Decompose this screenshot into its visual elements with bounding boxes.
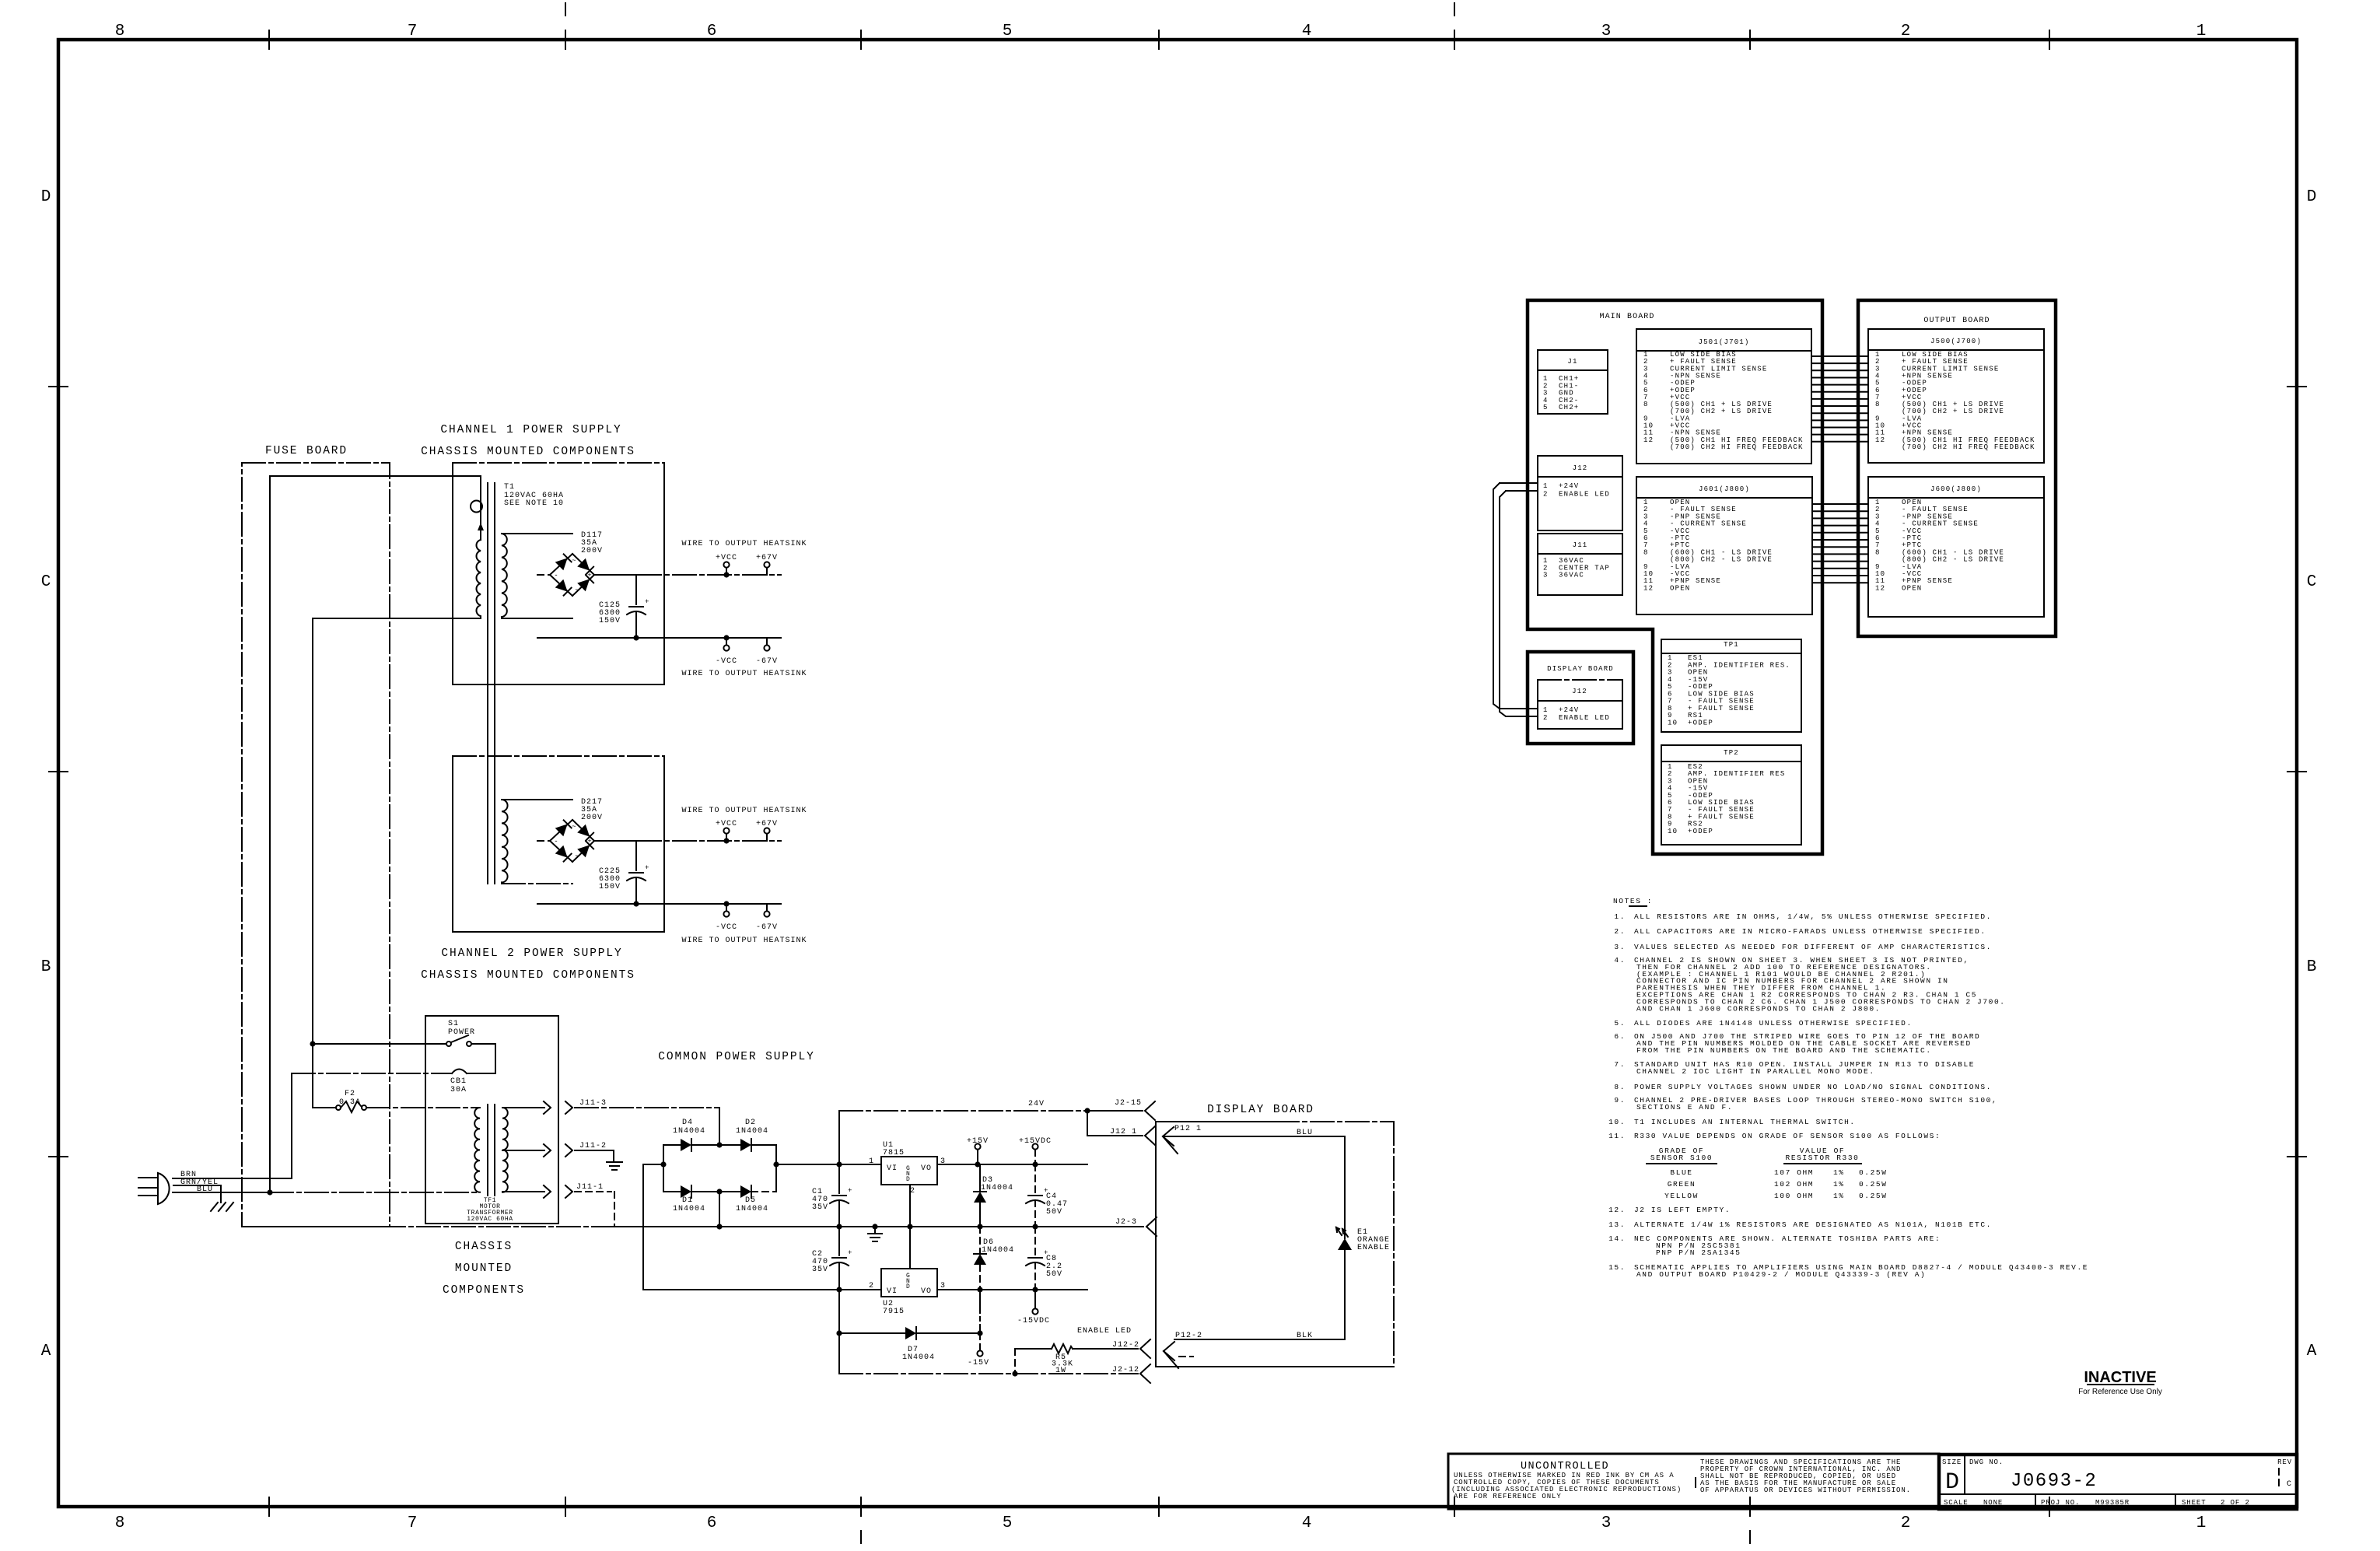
title block uncontrolled box bbox=[1448, 1454, 1939, 1509]
junction -VCC ch2 bbox=[723, 901, 729, 906]
svg-text:100 OHM: 100 OHM bbox=[1774, 1192, 1814, 1200]
svg-text:OPEN: OPEN bbox=[1902, 584, 1922, 592]
svg-text:102 OHM: 102 OHM bbox=[1774, 1180, 1814, 1189]
svg-text:10: 10 bbox=[1668, 828, 1678, 835]
wire J2-12 row bbox=[839, 1373, 1138, 1374]
svg-text:ENABLE LED: ENABLE LED bbox=[1559, 714, 1610, 722]
svg-text:C: C bbox=[2307, 573, 2317, 591]
wire F2 to TF1 primary bbox=[366, 1107, 480, 1108]
svg-text:ALL RESISTORS ARE IN OHMS, 1/4: ALL RESISTORS ARE IN OHMS, 1/4W, 5% UNLE… bbox=[1634, 912, 1992, 921]
svg-text:+VCC: +VCC bbox=[716, 554, 737, 562]
svg-text:+: + bbox=[848, 1249, 852, 1257]
svg-text:J12: J12 bbox=[1573, 464, 1588, 472]
svg-text:VI: VI bbox=[887, 1164, 898, 1173]
ribbon wires J501 to J500 bbox=[1811, 356, 1868, 442]
T1 secondary winding ch1 bbox=[502, 534, 507, 617]
note 14 part numbers bbox=[1656, 1241, 1741, 1257]
svg-text:4.: 4. bbox=[1614, 956, 1626, 965]
wire J11-3 riser to D4/D2 row bbox=[719, 1108, 720, 1145]
svg-text:FUSE BOARD: FUSE BOARD bbox=[265, 445, 348, 457]
svg-text:8: 8 bbox=[115, 23, 125, 40]
wire TF1 secondary tap J11-2 center bbox=[502, 1144, 614, 1162]
earth ground symbol center tap bbox=[607, 1162, 622, 1170]
svg-text:1N4004: 1N4004 bbox=[982, 1246, 1014, 1255]
junction D1-D5 bbox=[716, 1189, 722, 1194]
bridge ac stub left ch2 bbox=[537, 840, 550, 842]
svg-text:TP1: TP1 bbox=[1724, 641, 1739, 649]
note 1 bbox=[1614, 912, 1992, 921]
svg-text:200V: 200V bbox=[581, 814, 603, 822]
note 14 bbox=[1608, 1234, 1941, 1243]
svg-text:5: 5 bbox=[1543, 404, 1549, 411]
test point table TP1 bbox=[1661, 639, 1801, 732]
wire J11-1 riser to D1/D5 bbox=[719, 1192, 720, 1227]
wire T1 primary bottom to x=402 y=795 bbox=[313, 618, 481, 1108]
svg-text:1N4004: 1N4004 bbox=[736, 1127, 768, 1136]
svg-text:CHANNEL 2 POWER SUPPLY: CHANNEL 2 POWER SUPPLY bbox=[441, 947, 622, 960]
svg-text:TP2: TP2 bbox=[1724, 749, 1739, 757]
svg-text:30A: 30A bbox=[450, 1086, 467, 1094]
svg-text:9.: 9. bbox=[1614, 1096, 1626, 1105]
wire to J12-1 bbox=[1087, 1111, 1143, 1136]
svg-text:10: 10 bbox=[1668, 719, 1678, 726]
connector table J1 bbox=[1538, 350, 1608, 414]
svg-text:J2-15: J2-15 bbox=[1115, 1099, 1142, 1108]
svg-text:J2-12: J2-12 bbox=[1112, 1366, 1139, 1374]
svg-text:J12: J12 bbox=[1572, 688, 1587, 695]
svg-text:VO: VO bbox=[921, 1164, 932, 1173]
terminal +VCC ch2 bbox=[716, 820, 737, 841]
svg-text:D1: D1 bbox=[682, 1196, 693, 1205]
title block property text bbox=[1700, 1458, 1911, 1494]
svg-text:BLU: BLU bbox=[197, 1185, 213, 1194]
svg-text:4: 4 bbox=[1302, 1514, 1312, 1532]
svg-text:BLUE: BLUE bbox=[1670, 1168, 1692, 1177]
junction 24V J12-1 drop bbox=[1084, 1108, 1090, 1113]
junction R5 J2-12 bbox=[1012, 1371, 1017, 1376]
note 9 bbox=[1614, 1096, 1997, 1112]
svg-text:P12-2: P12-2 bbox=[1175, 1332, 1202, 1340]
regulator U1 7815 bbox=[869, 1141, 946, 1196]
display board outline left bbox=[1156, 1122, 1394, 1367]
svg-text:D: D bbox=[906, 1176, 910, 1183]
svg-text:35V: 35V bbox=[812, 1203, 828, 1212]
bridge rectifier D217 bbox=[550, 820, 594, 862]
terminal -67V ch1 bbox=[756, 638, 778, 666]
wire GRN/YEL from plug bbox=[173, 1185, 221, 1203]
diode D1 bbox=[663, 1185, 719, 1213]
connector table J12 display bbox=[1538, 680, 1622, 729]
svg-text:-: - bbox=[554, 572, 558, 579]
connector table J500(J700) bbox=[1868, 329, 2044, 463]
note 4 bbox=[1614, 956, 2005, 1013]
svg-text:1N4004: 1N4004 bbox=[902, 1353, 935, 1362]
junction gnd U1 pin2 bbox=[907, 1224, 912, 1229]
svg-text:WIRE TO OUTPUT HEATSINK: WIRE TO OUTPUT HEATSINK bbox=[681, 807, 807, 815]
svg-text:DISPLAY BOARD: DISPLAY BOARD bbox=[1547, 665, 1614, 673]
svg-text:8: 8 bbox=[115, 1514, 125, 1532]
svg-text:3.: 3. bbox=[1614, 943, 1626, 951]
svg-text:D: D bbox=[2307, 188, 2317, 206]
svg-text:J2-3: J2-3 bbox=[1115, 1218, 1137, 1227]
svg-text:7915: 7915 bbox=[883, 1308, 905, 1316]
note 11 bbox=[1608, 1132, 1941, 1140]
capacitor C1 bbox=[812, 1164, 852, 1227]
svg-text:J501(J701): J501(J701) bbox=[1698, 338, 1749, 346]
svg-text:35V: 35V bbox=[812, 1266, 828, 1274]
svg-text:12: 12 bbox=[1643, 584, 1654, 592]
junction +15V stub bbox=[975, 1161, 980, 1167]
svg-text:0.25W: 0.25W bbox=[1859, 1192, 1888, 1200]
svg-text:+: + bbox=[848, 1187, 852, 1195]
svg-text:+: + bbox=[587, 572, 591, 579]
svg-text:C: C bbox=[2287, 1480, 2292, 1489]
TF1 secondary winding bbox=[502, 1108, 508, 1192]
C125 label bbox=[599, 601, 621, 625]
wire D4/D1 anodes join bbox=[643, 1145, 663, 1290]
wire +unreg row to U1 bbox=[776, 1164, 881, 1165]
wire P12-1 BLU to LED bbox=[1163, 1136, 1345, 1238]
svg-text:BLK: BLK bbox=[1297, 1332, 1313, 1340]
chassis box TF1 common bbox=[425, 1016, 558, 1224]
svg-text:+: + bbox=[587, 838, 591, 846]
svg-text:24V: 24V bbox=[1028, 1100, 1045, 1108]
note 11 sensor table bbox=[1647, 1147, 1888, 1200]
svg-text:2: 2 bbox=[1543, 714, 1549, 722]
terminal +67V ch2 bbox=[756, 820, 778, 841]
svg-text:1N4004: 1N4004 bbox=[736, 1205, 768, 1213]
svg-text:150V: 150V bbox=[599, 883, 621, 891]
main board outline bbox=[1528, 300, 1822, 854]
svg-text:+: + bbox=[645, 598, 649, 606]
svg-text:7: 7 bbox=[408, 1514, 418, 1532]
diode D6 bbox=[974, 1227, 1014, 1290]
svg-text:1: 1 bbox=[1543, 482, 1549, 490]
TF1 label bbox=[467, 1197, 513, 1223]
svg-text:NONE: NONE bbox=[1983, 1499, 2003, 1507]
svg-text:1%: 1% bbox=[1833, 1168, 1845, 1177]
svg-text:SHEET: SHEET bbox=[2182, 1499, 2207, 1507]
svg-text:14.: 14. bbox=[1608, 1234, 1626, 1243]
D217 label bbox=[581, 798, 603, 822]
svg-text:12: 12 bbox=[1643, 436, 1654, 444]
svg-text:J11-2: J11-2 bbox=[579, 1142, 607, 1150]
T1 primary winding bbox=[476, 540, 481, 618]
stamp INACTIVE bbox=[2078, 1369, 2162, 1396]
svg-text:1: 1 bbox=[1543, 706, 1549, 714]
svg-text:D: D bbox=[41, 188, 51, 206]
svg-text:J1: J1 bbox=[1567, 358, 1577, 366]
note 8 bbox=[1614, 1083, 1992, 1091]
svg-text:6.: 6. bbox=[1614, 1032, 1626, 1041]
svg-text:1N4004: 1N4004 bbox=[673, 1127, 705, 1136]
svg-text:11.: 11. bbox=[1608, 1132, 1626, 1140]
svg-text:+ODEP: +ODEP bbox=[1688, 719, 1713, 726]
svg-text:3: 3 bbox=[1601, 23, 1612, 40]
ac power plug P1 bbox=[138, 1173, 170, 1204]
TF1 core lines bbox=[488, 1105, 495, 1196]
svg-text:-67V: -67V bbox=[756, 923, 778, 932]
offpage arrow J2-3 bbox=[1115, 1217, 1157, 1236]
svg-text:NOTES :: NOTES : bbox=[1613, 897, 1653, 905]
svg-text:-VCC: -VCC bbox=[716, 657, 737, 666]
junction gnd C4C8 bbox=[1032, 1224, 1038, 1229]
junction gnd D3D6 bbox=[977, 1224, 982, 1229]
junction D7 right bbox=[977, 1330, 982, 1336]
T1 label bbox=[504, 483, 564, 508]
svg-text:B: B bbox=[41, 958, 51, 976]
svg-text:P12 1: P12 1 bbox=[1174, 1125, 1202, 1133]
wire BRN dash-dot to CB1 bbox=[292, 1073, 452, 1074]
regulator U2 7915 bbox=[869, 1269, 946, 1316]
svg-text:VO: VO bbox=[921, 1287, 932, 1296]
chassis box channel 2 bbox=[453, 756, 664, 932]
svg-text:8: 8 bbox=[1875, 548, 1881, 556]
wire S1 feed from x=402 y=1342 bbox=[313, 1043, 446, 1045]
fuse board dashed outline bbox=[242, 463, 390, 1227]
wire bridge + output ch2 bbox=[594, 840, 781, 842]
svg-text:+24V: +24V bbox=[1559, 482, 1579, 490]
junction cap bottom ch2 bbox=[633, 901, 639, 906]
svg-text:+ODEP: +ODEP bbox=[1688, 828, 1713, 835]
junction D6 bottom bbox=[977, 1287, 982, 1292]
svg-text:PROJ NO.: PROJ NO. bbox=[2041, 1499, 2080, 1507]
svg-text:D: D bbox=[1945, 1469, 1959, 1496]
svg-text:0.25W: 0.25W bbox=[1859, 1168, 1888, 1177]
svg-text:BLU: BLU bbox=[1297, 1129, 1313, 1137]
svg-text:15.: 15. bbox=[1608, 1263, 1626, 1272]
svg-text:7.: 7. bbox=[1614, 1060, 1626, 1069]
wire BRN from plug bbox=[173, 1073, 292, 1178]
svg-text:VALUES SELECTED AS NEEDED FOR: VALUES SELECTED AS NEEDED FOR DIFFERENT … bbox=[1634, 943, 1992, 951]
svg-text:VI: VI bbox=[887, 1287, 898, 1296]
note 12 bbox=[1608, 1206, 1731, 1214]
capacitor C8 bbox=[1026, 1227, 1062, 1290]
svg-text:ALL CAPACITORS ARE IN MICRO-FA: ALL CAPACITORS ARE IN MICRO-FARADS UNLES… bbox=[1634, 927, 1986, 936]
svg-text:+67V: +67V bbox=[756, 820, 778, 828]
svg-text:13.: 13. bbox=[1608, 1220, 1626, 1229]
svg-text:MOUNTED: MOUNTED bbox=[455, 1262, 513, 1275]
svg-text:2.: 2. bbox=[1614, 927, 1626, 936]
svg-text:(700) CH2 HI FREQ FEEDBACK: (700) CH2 HI FREQ FEEDBACK bbox=[1902, 443, 2035, 451]
wire U1 GND to U2 GND bbox=[909, 1185, 911, 1269]
wires T1 secondary to bridge ch2 bbox=[502, 800, 572, 884]
svg-text:POWER SUPPLY VOLTAGES SHOWN UN: POWER SUPPLY VOLTAGES SHOWN UNDER NO LOA… bbox=[1634, 1083, 1992, 1091]
svg-text:2 OF 2: 2 OF 2 bbox=[2221, 1499, 2250, 1507]
svg-text:0.3A: 0.3A bbox=[339, 1098, 361, 1107]
note 10 bbox=[1608, 1118, 1856, 1126]
svg-text:1N4004: 1N4004 bbox=[981, 1184, 1013, 1192]
junction C8 bottom -15VDC bbox=[1032, 1287, 1038, 1292]
LED E1 ORANGE ENABLE bbox=[1336, 1227, 1390, 1339]
svg-text:8: 8 bbox=[1643, 401, 1649, 408]
arrow P12-1 bbox=[1163, 1125, 1202, 1154]
svg-text:1: 1 bbox=[2196, 23, 2207, 40]
junction gnd C1C2 bbox=[836, 1224, 842, 1229]
svg-text:50V: 50V bbox=[1046, 1270, 1062, 1279]
notes heading bbox=[1613, 897, 1653, 906]
svg-text:D2: D2 bbox=[745, 1119, 756, 1127]
note 7 bbox=[1614, 1060, 1975, 1076]
svg-text:~: ~ bbox=[575, 586, 579, 594]
svg-text:+24V: +24V bbox=[1559, 706, 1579, 714]
connector table J601(J800) bbox=[1636, 477, 1812, 614]
note 6 bbox=[1614, 1032, 1980, 1055]
svg-text:7815: 7815 bbox=[883, 1149, 905, 1157]
note 13 bbox=[1608, 1220, 1992, 1229]
bridge rectifier D117 bbox=[550, 554, 594, 596]
svg-text:J601(J800): J601(J800) bbox=[1699, 485, 1750, 493]
svg-text:200V: 200V bbox=[581, 547, 603, 555]
svg-text:T1 INCLUDES AN INTERNAL THERMA: T1 INCLUDES AN INTERNAL THERMAL SWITCH. bbox=[1634, 1118, 1856, 1126]
svg-text:ENABLE LED: ENABLE LED bbox=[1559, 490, 1610, 498]
switch S1 POWER bbox=[446, 1020, 475, 1046]
offpage arrow J2-15 bbox=[1115, 1099, 1155, 1120]
zone ticks top/bottom bbox=[269, 3, 2049, 1543]
ribbon wires J601 to J600 bbox=[1812, 504, 1868, 583]
zone numbers bottom bbox=[115, 1514, 2207, 1532]
title block drawing number area bbox=[1939, 1455, 2297, 1509]
connector table J12 main bbox=[1538, 456, 1622, 530]
svg-text:M99385R: M99385R bbox=[2095, 1499, 2130, 1507]
transformer TF1 primary winding bbox=[474, 1108, 480, 1192]
wire U1 output row bbox=[937, 1164, 1087, 1165]
svg-text:REV: REV bbox=[2277, 1458, 2292, 1466]
diode D2 bbox=[719, 1119, 776, 1151]
svg-text:UNCONTROLLED: UNCONTROLLED bbox=[1521, 1461, 1609, 1472]
svg-text:J0693-2: J0693-2 bbox=[2011, 1471, 2097, 1492]
svg-text:B: B bbox=[2307, 958, 2317, 976]
svg-text:J11-3: J11-3 bbox=[579, 1099, 607, 1108]
svg-text:6: 6 bbox=[707, 23, 717, 40]
diode D7 bbox=[839, 1327, 980, 1362]
svg-text:2: 2 bbox=[1901, 23, 1911, 40]
capacitor C125 bbox=[627, 575, 649, 638]
svg-text:J600(J800): J600(J800) bbox=[1930, 485, 1982, 493]
svg-text:R330 VALUE DEPENDS ON GRADE OF: R330 VALUE DEPENDS ON GRADE OF SENSOR S1… bbox=[1634, 1132, 1941, 1140]
junction D4-D2 bbox=[716, 1142, 722, 1147]
svg-text:J12 1: J12 1 bbox=[1110, 1128, 1137, 1136]
junction cap bottom ch1 bbox=[633, 635, 639, 640]
svg-text:ALTERNATE 1/4W 1% RESISTORS AR: ALTERNATE 1/4W 1% RESISTORS ARE DESIGNAT… bbox=[1634, 1220, 1992, 1229]
wire T1 primary top feed y=612 bbox=[270, 476, 481, 498]
junction BLU fuse board bbox=[267, 1189, 272, 1195]
svg-text:J11: J11 bbox=[1573, 541, 1588, 549]
terminal +67V ch1 bbox=[756, 554, 778, 575]
junction +VCC ch1 bbox=[723, 572, 729, 577]
svg-text:CHANNEL 1 POWER SUPPLY: CHANNEL 1 POWER SUPPLY bbox=[440, 424, 621, 436]
svg-text:ENABLE LED: ENABLE LED bbox=[1077, 1327, 1132, 1336]
svg-text:T1: T1 bbox=[504, 483, 515, 492]
note 3 bbox=[1614, 943, 1992, 951]
svg-text:SECTIONS E AND F.: SECTIONS E AND F. bbox=[1636, 1103, 1733, 1112]
wire TF1 secondary tap J11-1 bbox=[502, 1185, 614, 1227]
svg-text:5: 5 bbox=[1003, 1514, 1013, 1532]
svg-text:-15VDC: -15VDC bbox=[1017, 1317, 1050, 1325]
svg-text:ENABLE: ENABLE bbox=[1357, 1244, 1390, 1252]
svg-text:D4: D4 bbox=[682, 1119, 693, 1127]
svg-text:F2: F2 bbox=[345, 1090, 355, 1098]
svg-text:CB1: CB1 bbox=[450, 1077, 467, 1086]
svg-text:CHASSIS MOUNTED COMPONENTS: CHASSIS MOUNTED COMPONENTS bbox=[421, 446, 635, 458]
wire 24V riser and rail bbox=[839, 1111, 1143, 1164]
connector table J11 main bbox=[1538, 534, 1622, 595]
svg-text:A: A bbox=[2307, 1343, 2317, 1360]
terminal +15V bbox=[967, 1137, 989, 1164]
svg-text:+: + bbox=[645, 864, 649, 872]
offpage arrow J2-12 bbox=[1112, 1364, 1150, 1383]
output board outline bbox=[1858, 300, 2056, 636]
svg-text:ARE FOR REFERENCE ONLY: ARE FOR REFERENCE ONLY bbox=[1454, 1493, 1562, 1500]
terminal -VCC ch1 bbox=[716, 638, 737, 666]
svg-text:3: 3 bbox=[1601, 1514, 1612, 1532]
ground row J2-3 bbox=[614, 1226, 1143, 1227]
zone letters left/right and side ticks bbox=[41, 188, 2317, 1360]
wire R5 to J2-12 row bbox=[1014, 1349, 1016, 1374]
svg-text:ALL DIODES ARE 1N4148 UNLESS O: ALL DIODES ARE 1N4148 UNLESS OTHERWISE S… bbox=[1634, 1019, 1913, 1028]
fuse F2 0.3A bbox=[313, 1090, 366, 1112]
svg-text:2: 2 bbox=[1543, 490, 1549, 498]
T1 core lines bbox=[488, 483, 495, 884]
svg-text:150V: 150V bbox=[599, 617, 621, 625]
svg-text:8: 8 bbox=[1875, 401, 1881, 408]
svg-text:6: 6 bbox=[707, 1514, 717, 1532]
resistor R5 3.3K 1W bbox=[1015, 1344, 1138, 1375]
terminal -67V ch2 bbox=[756, 904, 778, 932]
capacitor C2 bbox=[812, 1227, 852, 1290]
svg-text:1%: 1% bbox=[1833, 1192, 1845, 1200]
svg-text:2: 2 bbox=[910, 1187, 915, 1196]
test point table TP2 bbox=[1661, 745, 1801, 845]
svg-text:OF APPARATUS OR DEVICES WITHOU: OF APPARATUS OR DEVICES WITHOUT PERMISSI… bbox=[1700, 1486, 1911, 1494]
note 15 bbox=[1608, 1263, 2088, 1279]
wire S1 to CB1 bbox=[467, 1044, 495, 1073]
junction C2 bottom bbox=[836, 1287, 842, 1292]
wire -15 rail down to D7 row bbox=[979, 1290, 981, 1333]
junction +VCC ch2 bbox=[723, 838, 729, 843]
terminal -15V bbox=[968, 1333, 989, 1367]
svg-text:J500(J700): J500(J700) bbox=[1930, 338, 1982, 345]
zone numbers top bbox=[115, 23, 2207, 40]
fuse board bottom dash-dot wire bbox=[242, 1226, 614, 1227]
svg-text:1.: 1. bbox=[1614, 912, 1626, 921]
svg-text:12: 12 bbox=[1875, 584, 1885, 592]
diode D4 bbox=[663, 1119, 719, 1151]
svg-text:-: - bbox=[554, 838, 558, 846]
junction +15VDC stub bbox=[1032, 1161, 1038, 1167]
svg-text:12.: 12. bbox=[1608, 1206, 1626, 1214]
wire BRN vertical inside fuse board x=347 bbox=[269, 476, 271, 1192]
svg-text:WIRE TO OUTPUT HEATSINK: WIRE TO OUTPUT HEATSINK bbox=[681, 540, 807, 548]
svg-text:DISPLAY BOARD: DISPLAY BOARD bbox=[1207, 1104, 1314, 1116]
terminal -VCC ch2 bbox=[716, 904, 737, 932]
svg-text:7: 7 bbox=[408, 23, 418, 40]
D117 label bbox=[581, 531, 603, 555]
svg-text:5.: 5. bbox=[1614, 1019, 1626, 1028]
svg-text:107 OHM: 107 OHM bbox=[1774, 1168, 1814, 1177]
svg-text:COMMON POWER SUPPLY: COMMON POWER SUPPLY bbox=[658, 1051, 814, 1063]
note 5 bbox=[1614, 1019, 1912, 1028]
svg-text:1: 1 bbox=[869, 1157, 874, 1166]
connector table J600(J800) bbox=[1868, 477, 2044, 617]
svg-text:AND CHAN 1 J600 CORRESPONDS TO: AND CHAN 1 J600 CORRESPONDS TO CHAN 2 J8… bbox=[1636, 1004, 1881, 1013]
svg-text:OPEN: OPEN bbox=[1670, 584, 1690, 592]
svg-text:8: 8 bbox=[1643, 548, 1649, 556]
svg-text:POWER: POWER bbox=[448, 1028, 475, 1037]
chassis box channel 1 bbox=[453, 463, 664, 684]
svg-text:+67V: +67V bbox=[756, 554, 778, 562]
svg-text:+VCC: +VCC bbox=[716, 820, 737, 828]
